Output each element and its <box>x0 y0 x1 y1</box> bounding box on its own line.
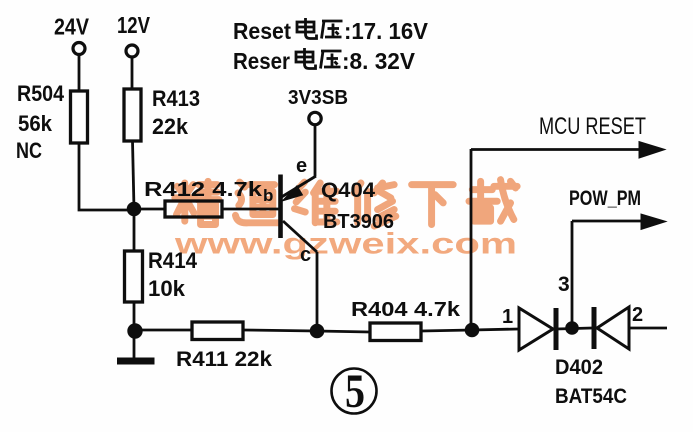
svg-text:BT3906: BT3906 <box>323 211 394 233</box>
transistor Q404 emitter arrow <box>283 186 302 200</box>
wire node A to R414 <box>133 209 136 251</box>
resistor R414 <box>125 251 143 302</box>
resistor R504 <box>71 91 88 143</box>
node B junction dot <box>128 324 142 338</box>
wire 12V to R413 <box>131 57 134 89</box>
resistor R413 <box>124 89 141 141</box>
svg-text:R404 4.7k: R404 4.7k <box>351 299 461 321</box>
svg-text:2: 2 <box>632 304 643 326</box>
svg-text:Q404: Q404 <box>321 179 375 202</box>
wire R412 to base <box>222 208 279 211</box>
transistor Q404 emitter <box>282 176 317 197</box>
wire R413 to node A <box>133 141 135 209</box>
svg-text:D402: D402 <box>555 356 603 379</box>
svg-text:Reser: Reser <box>233 48 290 74</box>
wire diode centre <box>556 328 592 329</box>
wire MCU RESET <box>471 148 648 151</box>
annotation Reser voltage text <box>233 48 416 74</box>
transistor Q404 collector <box>283 221 317 252</box>
svg-text:R504: R504 <box>17 81 65 106</box>
terminal 24V <box>73 43 85 55</box>
wire R504 to node A <box>79 143 134 210</box>
transistor Q404 base bar <box>278 175 283 239</box>
terminal 3V3SB <box>309 112 321 124</box>
svg-text:R412 4.7k: R412 4.7k <box>144 179 263 201</box>
wire 24V to R504 <box>78 55 81 92</box>
svg-text:1: 1 <box>502 306 513 328</box>
svg-text:24V: 24V <box>54 14 90 40</box>
svg-text:MCU RESET: MCU RESET <box>539 113 646 140</box>
svg-text:R414: R414 <box>148 248 198 273</box>
annotation Reset voltage text <box>233 18 429 44</box>
svg-text:POW_PM: POW_PM <box>569 187 641 210</box>
svg-text:R411 22k: R411 22k <box>176 348 272 371</box>
diode D402 pin1 anode <box>519 308 553 350</box>
svg-text:NC: NC <box>16 138 42 163</box>
wire node C to R404 <box>317 331 370 332</box>
wire node A to R412 <box>134 208 165 211</box>
arrow POW_PM <box>641 214 666 230</box>
sheet number circle 5 <box>332 369 377 414</box>
wire R404 to node D <box>421 330 472 331</box>
resistor R404 <box>370 323 421 341</box>
svg-text:Reset: Reset <box>233 18 291 44</box>
svg-text:b: b <box>263 186 273 205</box>
svg-text:22k: 22k <box>152 114 189 139</box>
node diode centre junction dot <box>566 322 579 335</box>
node A junction dot <box>127 202 141 216</box>
svg-text:3: 3 <box>558 273 570 296</box>
wire node B to R411 <box>134 329 192 332</box>
svg-text:12V: 12V <box>117 12 151 38</box>
wire D402 right <box>629 327 667 330</box>
wire node D to D402 <box>472 329 519 330</box>
svg-text:5: 5 <box>345 365 365 418</box>
svg-text:56k: 56k <box>18 111 53 136</box>
svg-text:10k: 10k <box>148 276 186 301</box>
wire emitter to 3V3SB <box>314 125 317 176</box>
ground <box>133 330 136 358</box>
wire R414 to node B <box>133 302 136 330</box>
svg-text::8. 32V: :8. 32V <box>342 48 416 74</box>
svg-text::17. 16V: :17. 16V <box>344 18 429 44</box>
wire collector to node C <box>316 252 319 331</box>
resistor R412 <box>165 201 222 217</box>
node C junction dot <box>310 324 324 338</box>
wire node D up <box>470 149 473 330</box>
svg-text:R413: R413 <box>152 86 200 111</box>
diode D402 pin1 cathode bar <box>554 308 559 350</box>
node D junction dot <box>465 323 479 337</box>
svg-text:e: e <box>296 155 307 177</box>
wire R411 to node C <box>243 330 317 331</box>
svg-text:c: c <box>300 244 311 266</box>
diode D402 pin2 cathode bar <box>592 307 597 349</box>
svg-text:3V3SB: 3V3SB <box>288 87 348 109</box>
watermark row1: 精通维修下载 <box>175 180 517 226</box>
resistor R411 <box>192 322 243 340</box>
diode D402 pin2 anode <box>597 307 629 349</box>
arrow MCU RESET <box>639 142 665 159</box>
main black ink <box>71 43 668 414</box>
terminal 12V <box>126 45 138 57</box>
wire POW_PM vertical <box>571 221 574 328</box>
svg-text:BAT54C: BAT54C <box>555 385 627 408</box>
wire POW_PM <box>572 220 650 223</box>
